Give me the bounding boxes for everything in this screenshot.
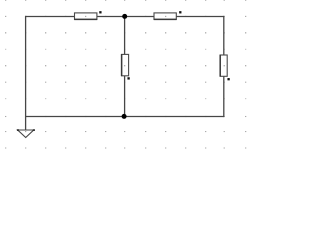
wire middle branch upper bbox=[124, 17, 126, 55]
resistor R1 bbox=[74, 13, 97, 20]
wire middle branch lower bbox=[124, 76, 126, 117]
wire bottom rail bbox=[26, 116, 224, 118]
terminal dot of R1 bbox=[99, 11, 101, 13]
wire top rail middle segment bbox=[97, 16, 154, 18]
resistor R3 bbox=[122, 54, 129, 76]
ground bbox=[17, 129, 35, 137]
wire right branch lower bbox=[223, 76, 225, 117]
resistor R4 bbox=[220, 55, 227, 77]
terminal dot of R4 bbox=[227, 78, 229, 80]
wire top rail left segment bbox=[26, 16, 75, 18]
wire right branch upper bbox=[223, 16, 225, 55]
terminal dot of R3 bbox=[127, 77, 129, 79]
resistor R2 bbox=[154, 13, 177, 20]
wire left rail bbox=[25, 16, 27, 130]
terminal dot of R2 bbox=[179, 11, 181, 13]
junction node top bbox=[122, 14, 127, 19]
junction node bottom bbox=[122, 114, 127, 119]
wire top rail right segment bbox=[176, 16, 224, 18]
